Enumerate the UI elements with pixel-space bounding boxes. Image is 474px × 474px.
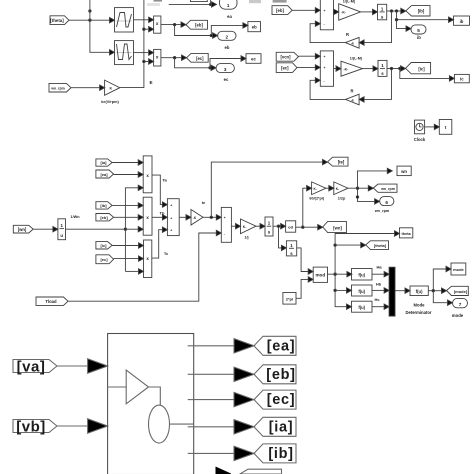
wire gJ to integrator I3	[256, 225, 260, 227]
wire down to port 7	[433, 291, 447, 303]
svg-text:ea: ea	[227, 14, 232, 19]
wire mode junction	[428, 290, 441, 292]
wire wn_rpm to gain ke	[71, 87, 100, 89]
output port 1 (cropped)	[220, 0, 238, 19]
BOTTOM SECTION (larger scale)	[13, 334, 296, 474]
svg-text:[ea]: [ea]	[267, 338, 296, 354]
svg-text:[eb]: [eb]	[276, 8, 284, 13]
to-workspace box t	[439, 120, 452, 135]
wire out ea	[194, 345, 239, 347]
svg-text:Tb: Tb	[160, 211, 165, 216]
wire arrow into LUT2	[110, 50, 115, 55]
svg-text:1/j: 1/j	[244, 235, 248, 239]
product Pb	[154, 16, 161, 33]
svg-text:+: +	[324, 9, 326, 13]
svg-text:u: u	[60, 233, 63, 238]
svg-text:1/(L-M): 1/(L-M)	[350, 56, 363, 60]
output port 3	[216, 64, 234, 82]
svg-text:6: 6	[385, 200, 388, 205]
goto tag [ec]	[187, 53, 209, 62]
wire Ta	[152, 175, 162, 205]
svg-text:f(u): f(u)	[416, 289, 423, 294]
subsystem block	[108, 334, 194, 474]
from tag [ib]	[96, 202, 112, 209]
port dash ib	[188, 452, 194, 454]
wire Hb to mux	[372, 289, 384, 291]
from tag [ec] mid	[96, 255, 114, 264]
svg-text:s: s	[381, 14, 384, 19]
svg-text:mod: mod	[315, 273, 325, 278]
goto tag [ia] big	[254, 417, 296, 436]
port dash ec	[188, 399, 194, 401]
wire 1/wn into product PB	[125, 228, 138, 230]
svg-text:1/(L-M): 1/(L-M)	[343, 0, 356, 4]
goto tag [eb]	[186, 20, 208, 29]
gain 1/J	[241, 219, 257, 239]
cropped product Pa remnant	[154, 0, 163, 2]
wire LUT2 to product Pc	[134, 52, 149, 54]
goto tag [theta]	[366, 241, 389, 250]
svg-text:E: E	[150, 80, 153, 85]
sum S1	[320, 0, 333, 30]
constant 2*pi	[283, 293, 296, 305]
wire branch down to port 3	[175, 58, 212, 68]
wire S1 to gain G1	[333, 11, 336, 13]
from tag [vcn]	[276, 52, 298, 61]
svg-text:[eb]: [eb]	[266, 367, 295, 383]
mod block	[313, 267, 327, 282]
wire S4 to gain 1/J	[231, 225, 235, 227]
svg-text:[ec]: [ec]	[100, 257, 108, 262]
wire te junction	[203, 216, 216, 218]
wire ic mid	[112, 245, 138, 247]
gain 1/(L-M) G2	[341, 56, 363, 76]
subsystem icon amplifier triangle	[126, 370, 148, 404]
goto tag [te]	[202, 157, 348, 205]
wire feedback b	[364, 11, 391, 43]
svg-text:theta: theta	[402, 232, 412, 236]
wire theta to junction	[69, 19, 90, 21]
svg-text:f(u): f(u)	[358, 273, 365, 278]
svg-text:1/2p: 1/2p	[338, 196, 346, 200]
svg-text:[theta]: [theta]	[374, 243, 387, 248]
goto box ec	[246, 54, 261, 64]
svg-text:[te]: [te]	[338, 160, 345, 165]
wire wn to reciprocal	[33, 228, 52, 230]
svg-text:1: 1	[290, 243, 293, 248]
product PB	[143, 197, 152, 235]
wire ea	[114, 174, 138, 176]
svg-text:[ia]: [ia]	[101, 160, 108, 165]
gain 1/2p	[334, 182, 348, 200]
cropped label remnant	[147, 3, 160, 6]
svg-text:K: K	[110, 87, 113, 91]
wire riser 1/wn	[125, 188, 138, 272]
goto tag [mode]	[447, 286, 469, 295]
wire up to wn box	[358, 171, 388, 188]
svg-text:K-: K-	[314, 187, 317, 191]
wire into LUT1	[90, 19, 110, 21]
wire feedback b return	[310, 24, 345, 43]
subsystem icon output line	[170, 423, 194, 425]
wire 2*pi to mod	[296, 279, 308, 298]
from tag [wn]	[13, 225, 33, 233]
svg-text:ec: ec	[224, 77, 229, 82]
goto tag [wn]	[323, 221, 347, 232]
memory block	[286, 221, 296, 232]
wire theta riser	[335, 234, 394, 275]
wire memory out junction	[296, 226, 318, 228]
wire out eb	[194, 373, 239, 375]
svg-text:s: s	[290, 251, 293, 256]
wire theta to mod	[297, 248, 308, 272]
svg-text:-: -	[324, 23, 325, 27]
sum S2	[320, 51, 333, 86]
wire out ic cropped	[216, 467, 232, 474]
svg-text:x: x	[146, 215, 149, 220]
svg-text:Hb: Hb	[376, 282, 382, 287]
wire branch to port 5	[397, 20, 406, 29]
goto box wn	[397, 166, 411, 176]
goto box mode	[451, 263, 466, 275]
wire feedback c return	[310, 80, 345, 99]
wire S2 to gain G2	[334, 68, 337, 70]
wire branch down to port 2	[175, 25, 213, 36]
svg-text:x: x	[146, 173, 149, 178]
svg-text:[mode]: [mode]	[454, 289, 468, 294]
from tag [theta]	[50, 16, 69, 25]
product PA	[143, 156, 152, 193]
goto tag [ic]	[406, 63, 431, 74]
svg-text:ic: ic	[460, 77, 464, 82]
svg-text:2: 2	[226, 35, 229, 40]
wire vb to subsystem	[57, 425, 88, 427]
from tag [ec]	[276, 63, 297, 73]
svg-text:7: 7	[459, 302, 462, 307]
from tag [wn_rpm]	[49, 83, 71, 92]
wire mux to mode fcn	[395, 290, 405, 292]
wire LUT1 to product Pb	[134, 19, 149, 21]
node E-b junction	[143, 28, 145, 30]
gain ke(V/rpm)	[101, 80, 120, 104]
node E-c junction	[143, 60, 145, 62]
svg-text:[va]: [va]	[17, 358, 46, 375]
subsystem icon link	[149, 387, 161, 405]
wire branch to [theta] goto	[335, 244, 360, 246]
from tag [Tload]	[36, 297, 68, 305]
wire down to port 6	[358, 188, 375, 201]
wire S3 to gain Te	[179, 216, 186, 218]
integrator 1/s I1	[378, 4, 387, 19]
svg-text:[ic]: [ic]	[101, 243, 108, 248]
fcn f(u) Hc	[352, 297, 381, 312]
wire te branch to goto	[211, 162, 322, 217]
svg-text:Hc: Hc	[374, 297, 380, 302]
port dash ea	[188, 345, 194, 347]
svg-text:-K-: -K-	[341, 11, 346, 15]
subsystem icon input line	[108, 386, 127, 388]
svg-text:eb: eb	[225, 45, 230, 50]
svg-text:wn_rpm: wn_rpm	[50, 87, 64, 91]
wire clock to t	[425, 126, 434, 128]
node theta junction	[89, 19, 91, 21]
svg-text:1: 1	[268, 221, 271, 226]
fcn f(u) Ha	[352, 264, 383, 280]
port dash eb	[188, 373, 194, 375]
wire rpm junctions	[348, 187, 368, 189]
svg-text:[ia]: [ia]	[269, 419, 294, 435]
output port 7	[452, 298, 468, 318]
product PC	[144, 240, 152, 278]
integrator 1/s I2	[378, 60, 387, 76]
svg-text:1: 1	[381, 6, 384, 11]
svg-text:[theta]: [theta]	[50, 18, 64, 23]
wire mod out	[328, 273, 347, 275]
svg-text:x: x	[146, 256, 149, 261]
wire eb mid	[114, 216, 138, 218]
wire Tload	[68, 233, 216, 301]
reciprocal block 1/u	[58, 215, 80, 240]
wire to integrator I4 (theta)	[279, 226, 282, 248]
svg-text:+: +	[170, 204, 172, 208]
svg-text:[ib]: [ib]	[418, 9, 425, 14]
svg-text:wn_rpm: wn_rpm	[380, 187, 395, 191]
svg-text:-K: -K	[193, 216, 197, 220]
svg-text:K-: K-	[243, 225, 247, 229]
svg-text:[eb]: [eb]	[195, 23, 203, 28]
wire ec mid	[114, 258, 139, 260]
cropped row a: wire into port 1	[169, 3, 212, 5]
svg-text:-k: -k	[351, 42, 354, 46]
svg-text:Ha: Ha	[376, 264, 382, 269]
lookup table fa(theta) LUT1	[115, 8, 134, 32]
svg-text:f(u): f(u)	[358, 289, 365, 294]
wire E into product Pb	[144, 28, 148, 30]
wire vcn to sum S2	[298, 55, 315, 57]
goto box ib	[454, 16, 470, 25]
from tag [ea]	[96, 170, 114, 178]
node theta upper junction	[89, 10, 91, 12]
wire ia	[112, 162, 138, 164]
goto box theta	[400, 228, 413, 238]
svg-text:[ib]: [ib]	[268, 446, 293, 462]
from tag [vb]	[13, 418, 57, 435]
svg-text:od: od	[288, 225, 293, 230]
wire Tb	[152, 216, 162, 218]
from tag [va]	[13, 358, 57, 375]
wire Hc to mux	[372, 306, 384, 308]
clock block	[414, 120, 426, 142]
wire I2 out	[387, 68, 400, 70]
wire E into product Pc	[144, 61, 148, 63]
svg-text:-: -	[324, 79, 325, 83]
svg-text:R: R	[350, 88, 353, 93]
output port 6	[374, 197, 394, 213]
gain 1/(L-M) G1	[339, 0, 361, 20]
wire I3 out	[273, 225, 280, 227]
fcn f(u) mode determinator	[405, 286, 431, 315]
wire branch up to ec box	[210, 59, 241, 68]
wire G1 to integrator I1	[361, 11, 373, 13]
goto tag [wn_rpm]	[373, 184, 397, 192]
svg-text:3: 3	[224, 67, 227, 72]
wire I1 out	[387, 10, 401, 12]
wire 1/u out to riser	[66, 228, 126, 230]
wire branch up to eb box	[211, 25, 242, 35]
wire mux riser	[335, 274, 346, 307]
svg-text:t: t	[445, 125, 447, 130]
svg-text:s: s	[268, 230, 271, 235]
svg-text:x: x	[156, 55, 159, 60]
integrator 1/s I3	[265, 217, 273, 236]
svg-text:te: te	[202, 200, 206, 205]
product Pc	[154, 49, 161, 66]
svg-text:-k: -k	[351, 98, 354, 102]
svg-text:wn_rpm: wn_rpm	[374, 209, 390, 213]
sum S3	[167, 199, 179, 236]
wire branch to ic box	[400, 69, 449, 79]
gain 60/(2*pi)	[309, 182, 325, 200]
integrator 1/s I4	[286, 241, 296, 256]
wire Tc	[152, 230, 162, 258]
wire ec to sum S2	[297, 66, 315, 68]
svg-text:x: x	[156, 21, 159, 26]
svg-text:[vcn]: [vcn]	[280, 55, 291, 60]
svg-text:1/Wn: 1/Wn	[70, 215, 80, 219]
wire product Pc out	[161, 57, 182, 59]
svg-text:+: +	[324, 66, 326, 70]
svg-text:Tc: Tc	[164, 251, 169, 256]
svg-text:-: -	[224, 232, 225, 236]
gain Te	[191, 210, 203, 226]
wire theta vertical branch	[90, 0, 112, 52]
svg-text:[ib]: [ib]	[100, 203, 107, 208]
svg-text:eb: eb	[252, 25, 257, 30]
cropped goto box ea remnant	[249, 0, 261, 3]
gain R2	[345, 88, 359, 104]
svg-text:[wn]: [wn]	[18, 227, 27, 232]
from tag [ia]	[96, 159, 112, 166]
fcn f(u) Hb	[352, 282, 382, 296]
goto tag [ec] big	[254, 390, 296, 409]
svg-text:+: +	[170, 229, 172, 233]
wire out ib	[194, 452, 239, 454]
svg-text:1: 1	[381, 63, 384, 68]
svg-text:[ec]: [ec]	[281, 65, 289, 70]
output port 5	[411, 25, 426, 40]
svg-text:1: 1	[227, 3, 230, 8]
wire va to subsystem	[57, 365, 88, 367]
svg-text:Clock: Clock	[414, 137, 426, 142]
svg-text:f(u): f(u)	[358, 305, 365, 310]
wire up to mode box	[433, 269, 445, 291]
svg-text:ec: ec	[251, 57, 256, 62]
goto tag [ea]	[254, 336, 296, 355]
svg-text:s: s	[381, 71, 384, 76]
wire riser to rpm gains	[303, 188, 307, 227]
wire 1/wn into product PC	[125, 270, 138, 272]
svg-text:5: 5	[417, 28, 420, 33]
svg-text:[ec]: [ec]	[196, 56, 204, 61]
svg-text:ib: ib	[417, 35, 421, 40]
port dash ia	[188, 426, 194, 428]
svg-text:[ec]: [ec]	[267, 392, 296, 408]
wire ib	[112, 204, 138, 206]
goto box ic	[454, 74, 469, 82]
wire product Pb out	[161, 24, 182, 26]
svg-text:Mode: Mode	[414, 303, 426, 308]
svg-text:wn: wn	[400, 169, 407, 174]
wire E riser	[120, 0, 144, 88]
svg-text:+: +	[170, 216, 172, 220]
from tag [ic] mid	[96, 242, 112, 249]
wire Ha to mux	[372, 273, 384, 275]
svg-text:K-: K-	[336, 187, 339, 191]
wire branch to f(u) Hb	[335, 289, 346, 291]
svg-text:[wn]: [wn]	[333, 225, 342, 230]
svg-text:ke(V/rpm): ke(V/rpm)	[101, 100, 119, 104]
wire eb to sum S1	[292, 9, 315, 11]
svg-text:2*pi: 2*pi	[286, 296, 293, 301]
from tag [eb] mid	[96, 214, 114, 221]
goto tag [eb] big	[254, 365, 296, 384]
svg-text:-K-: -K-	[344, 67, 349, 71]
wire out ec	[194, 399, 239, 401]
svg-text:+: +	[224, 216, 226, 220]
subsystem icon ellipse	[149, 405, 170, 443]
svg-text:R: R	[346, 32, 349, 37]
goto tag [ib]	[406, 6, 430, 16]
svg-text:mode: mode	[453, 267, 464, 272]
from tag [eb]	[272, 6, 292, 15]
goto box eb	[248, 22, 261, 32]
svg-text:+: +	[324, 55, 326, 59]
mux bar	[389, 267, 395, 316]
output port 2	[218, 31, 236, 50]
wire out ia	[194, 426, 239, 428]
svg-text:Tload: Tload	[45, 299, 57, 304]
sum S4	[221, 207, 231, 242]
svg-text:[ic]: [ic]	[418, 66, 425, 71]
svg-text:60/(2*pi): 60/(2*pi)	[309, 196, 325, 200]
svg-text:Determinator: Determinator	[405, 310, 431, 315]
svg-text:[eb]: [eb]	[100, 215, 108, 220]
wire to gain 1/2p	[326, 187, 329, 189]
goto tag [ib] big	[254, 444, 296, 463]
wire G2 to integrator I2	[363, 68, 373, 70]
wire feedback c	[364, 69, 391, 100]
cropped goto tag [ea] remnant	[191, 0, 208, 2]
wire branch to ib box	[397, 11, 449, 20]
svg-text:ib: ib	[460, 19, 464, 24]
svg-text:[vb]: [vb]	[16, 418, 46, 435]
svg-text:1: 1	[60, 223, 63, 228]
cropped tag [vbn] remnant	[273, 0, 287, 3]
svg-text:mode: mode	[452, 313, 464, 318]
gain R1	[345, 32, 359, 48]
svg-text:Ta: Ta	[162, 178, 167, 183]
svg-text:[ea]: [ea]	[100, 172, 108, 177]
goto tag [ic] big cropped	[240, 469, 282, 474]
lookup table fb(theta) LUT2	[115, 41, 134, 65]
